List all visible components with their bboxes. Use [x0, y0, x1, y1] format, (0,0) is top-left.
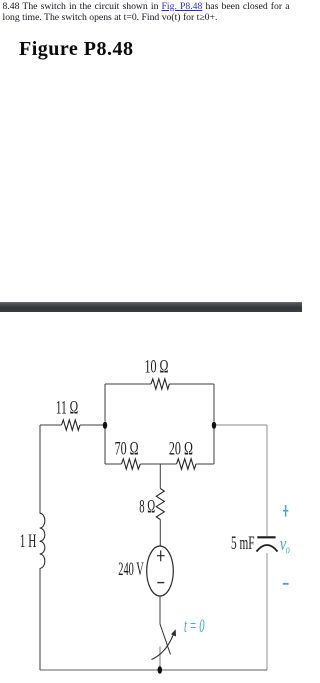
svg-text:5 mF: 5 mF — [231, 533, 255, 554]
svg-text:70 Ω: 70 Ω — [115, 438, 139, 459]
svg-text:8 Ω: 8 Ω — [139, 497, 155, 518]
svg-text:t = 0: t = 0 — [184, 616, 205, 637]
svg-text:11 Ω: 11 Ω — [56, 398, 78, 419]
svg-text:10 Ω: 10 Ω — [145, 357, 169, 378]
svg-text:20 Ω: 20 Ω — [169, 438, 193, 459]
svg-text:240 V: 240 V — [118, 559, 144, 580]
svg-text:1 H: 1 H — [20, 531, 37, 552]
svg-text:o: o — [286, 542, 290, 557]
